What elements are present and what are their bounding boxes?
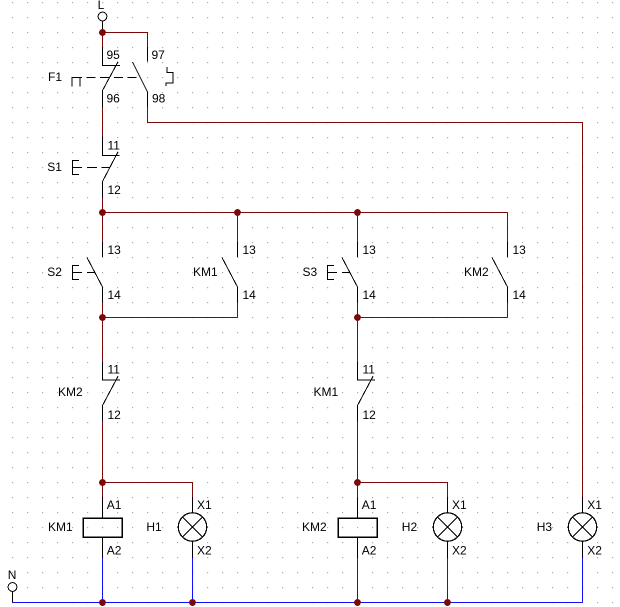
svg-text:H2: H2 — [402, 520, 418, 534]
svg-text:96: 96 — [107, 92, 121, 106]
svg-text:X2: X2 — [587, 543, 602, 557]
svg-text:KM1: KM1 — [48, 520, 73, 534]
svg-text:N: N — [8, 568, 17, 582]
svg-text:S3: S3 — [303, 265, 318, 279]
svg-text:13: 13 — [243, 243, 257, 257]
svg-text:13: 13 — [108, 243, 122, 257]
svg-text:98: 98 — [152, 92, 166, 106]
svg-text:12: 12 — [108, 408, 122, 422]
svg-text:14: 14 — [363, 288, 377, 302]
svg-text:X1: X1 — [587, 498, 602, 512]
svg-text:13: 13 — [513, 243, 527, 257]
svg-text:KM2: KM2 — [464, 265, 489, 279]
svg-text:A1: A1 — [107, 498, 122, 512]
svg-text:X1: X1 — [197, 498, 212, 512]
svg-text:H1: H1 — [146, 520, 162, 534]
svg-text:L: L — [98, 0, 105, 12]
svg-text:14: 14 — [108, 288, 122, 302]
svg-text:A2: A2 — [362, 543, 377, 557]
svg-text:11: 11 — [363, 363, 376, 377]
svg-text:A2: A2 — [107, 543, 122, 557]
svg-text:14: 14 — [513, 288, 527, 302]
svg-text:14: 14 — [243, 288, 257, 302]
svg-text:S1: S1 — [47, 160, 62, 174]
svg-text:A1: A1 — [362, 498, 377, 512]
svg-text:S2: S2 — [47, 265, 62, 279]
svg-text:KM2: KM2 — [58, 385, 83, 399]
svg-text:13: 13 — [363, 243, 377, 257]
svg-text:97: 97 — [152, 48, 166, 62]
svg-text:F1: F1 — [48, 70, 62, 84]
svg-text:X2: X2 — [197, 543, 212, 557]
svg-text:95: 95 — [107, 48, 121, 62]
svg-text:X1: X1 — [452, 498, 467, 512]
svg-text:11: 11 — [108, 138, 121, 152]
svg-text:X2: X2 — [452, 543, 467, 557]
svg-text:KM2: KM2 — [302, 520, 327, 534]
svg-text:H3: H3 — [537, 520, 553, 534]
svg-text:11: 11 — [108, 363, 121, 377]
svg-text:KM1: KM1 — [193, 265, 218, 279]
svg-text:KM1: KM1 — [314, 385, 339, 399]
svg-text:12: 12 — [363, 408, 377, 422]
svg-text:12: 12 — [108, 183, 122, 197]
